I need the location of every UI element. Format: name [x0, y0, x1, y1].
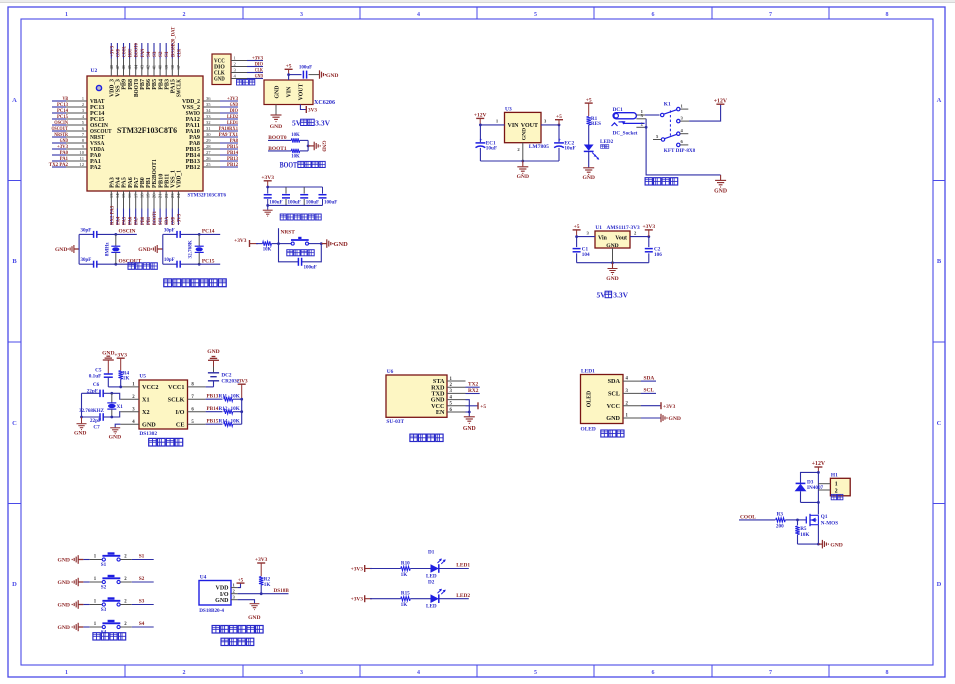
svg-text:104: 104 — [582, 252, 590, 258]
svg-text:RES: RES — [591, 121, 601, 127]
svg-text:SCL: SCL — [644, 388, 655, 394]
svg-text:27: 27 — [206, 150, 211, 155]
svg-text:VDD_1: VDD_1 — [177, 170, 183, 188]
svg-text:7: 7 — [769, 12, 772, 18]
svg-text:VOUT: VOUT — [298, 84, 304, 101]
svg-text:S1: S1 — [101, 562, 107, 568]
ic U6 SU-03T voice module — [386, 369, 466, 425]
resistor 10K on BOOT0 — [291, 133, 300, 143]
ic LED1 OLED display — [581, 369, 642, 433]
svg-text:12: 12 — [79, 162, 84, 167]
svg-text:S4: S4 — [139, 621, 145, 627]
resistor 10K on BOOT1 — [291, 149, 300, 160]
wire reset capacitor loop — [279, 244, 322, 262]
svg-text:VSS_3: VSS_3 — [116, 79, 122, 97]
power +3V3 at R10 — [351, 565, 372, 572]
power +5 at AMS1117 input — [573, 224, 581, 237]
svg-text:GND: GND — [669, 416, 681, 422]
junction pullup 1 — [240, 398, 243, 401]
resistor R5 10K — [795, 520, 809, 544]
svg-text:PB0: PB0 — [140, 177, 146, 188]
pin 36 VDD_2 / net +3V3 — [182, 96, 238, 105]
svg-text:Q1: Q1 — [821, 514, 828, 520]
resistor R11 10K pullup — [219, 394, 242, 402]
svg-text:PB14: PB14 — [207, 406, 219, 412]
wire cap to junction bottom — [180, 263, 220, 265]
svg-text:U4: U4 — [200, 575, 207, 581]
wire VIN to cap — [289, 74, 302, 76]
svg-text:LED: LED — [426, 573, 437, 579]
wire C5 to pin1 — [108, 386, 120, 388]
svg-text:TX2 PA2: TX2 PA2 — [49, 162, 68, 168]
junction at reset gnd — [320, 242, 323, 245]
wire EN to junction — [466, 411, 470, 413]
wire cap to junction bottom — [97, 263, 137, 265]
svg-text:C7: C7 — [93, 425, 100, 431]
power +12V at cooling — [812, 461, 826, 472]
junction DS18B20 data — [260, 592, 263, 595]
pin 31 PA10 / net PA10RX1 — [186, 126, 239, 135]
svg-text:PA2: PA2 — [90, 165, 101, 171]
junction top crystal — [198, 233, 201, 236]
svg-text:OLED: OLED — [587, 391, 593, 407]
svg-text:14: 14 — [115, 193, 120, 198]
wire cap to junction top — [97, 233, 137, 235]
ground at LED2 — [582, 168, 594, 181]
wire GND pin to EN pin — [466, 400, 470, 412]
svg-text:OSCIN: OSCIN — [119, 229, 136, 235]
ic U4 DS18B20-4 — [199, 575, 236, 614]
svg-text:OSCOUT: OSCOUT — [119, 258, 142, 264]
pin 25 PB12 / net PB12 — [186, 162, 239, 171]
junction VCC2 node — [119, 386, 122, 389]
svg-text:16: 16 — [127, 193, 132, 198]
resistor R12 10K pullup — [219, 406, 242, 414]
svg-text:GND: GND — [275, 86, 281, 99]
svg-text:PA5: PA5 — [122, 177, 128, 188]
svg-text:PB7: PB7 — [140, 79, 146, 90]
pin 30 PA9 / net PA9 TX1 — [189, 132, 238, 141]
svg-text:PB2BOOT1: PB2BOOT1 — [152, 159, 158, 188]
ground sideways at button S4 — [58, 623, 84, 631]
pin 37 SWCLK / net CLK — [176, 43, 183, 97]
net label S2 — [139, 576, 145, 582]
svg-text:C: C — [12, 420, 17, 427]
pin 32 PA11 / net LED1 — [186, 120, 239, 129]
pin 26 PB13 / net PB13 — [186, 156, 239, 165]
svg-text:LM7805: LM7805 — [529, 144, 549, 150]
svg-text:GND: GND — [102, 350, 114, 356]
svg-text:20: 20 — [152, 193, 157, 198]
svg-text:X1: X1 — [117, 404, 124, 410]
pin 3 PC14 / net PC14 — [52, 108, 105, 117]
ground at power circuit — [714, 175, 727, 195]
label xiazaikou (download port title) — [237, 80, 255, 86]
svg-text:R15: R15 — [401, 591, 410, 597]
wire diode branch bottom — [801, 501, 819, 503]
junction X2 bottom — [110, 416, 113, 419]
wire crystal rail — [162, 234, 164, 264]
power +5 at DS18B20 VDD — [231, 577, 245, 587]
svg-text:S3: S3 — [139, 599, 145, 605]
svg-text:VCC: VCC — [607, 403, 620, 410]
junction top crystal — [114, 233, 117, 236]
pin 42 PB6 / net S4 — [146, 43, 153, 90]
svg-text:LED: LED — [426, 604, 437, 610]
net label SDA — [641, 375, 656, 381]
svg-text:41: 41 — [152, 64, 157, 69]
label clock module title — [149, 438, 183, 446]
net label LED1 — [456, 563, 470, 569]
svg-text:GND: GND — [517, 174, 529, 180]
transistor Q1 N-MOS — [806, 514, 838, 527]
power +12V at LM7805 input — [474, 113, 487, 125]
ground sideways at reset — [327, 239, 348, 248]
junction AMS input — [575, 235, 578, 238]
ground sideways at BOOT — [314, 140, 325, 152]
svg-text:4: 4 — [417, 670, 420, 676]
ground sideways at button S1 — [58, 555, 84, 564]
wire +12V to VIN pin 1 — [480, 118, 504, 125]
wire R10 to led D1 — [410, 568, 430, 570]
svg-text:GND: GND — [326, 73, 338, 79]
svg-text:37: 37 — [176, 64, 181, 69]
capacitor 100uF filter 1 — [264, 187, 283, 205]
svg-text:OLED: OLED — [581, 427, 596, 433]
wire pullup rail — [241, 399, 243, 424]
svg-text:8: 8 — [886, 670, 889, 676]
pin 19 PB1 / net PB1 — [146, 177, 153, 225]
svg-text:RX2 PA3: RX2 PA3 — [109, 206, 115, 225]
svg-text:B: B — [937, 258, 942, 265]
svg-text:1K: 1K — [264, 582, 271, 588]
svg-text:LED1: LED1 — [581, 369, 595, 375]
svg-text:1: 1 — [65, 12, 68, 18]
svg-text:+12V: +12V — [714, 98, 728, 104]
svg-text:SDA: SDA — [164, 217, 170, 225]
power +3V3 at R2 — [255, 557, 268, 576]
svg-text:STM32F103C8T6: STM32F103C8T6 — [117, 126, 177, 135]
button S1 — [101, 554, 121, 568]
svg-text:30pF: 30pF — [80, 228, 91, 233]
wire to resistor R10 — [370, 568, 401, 570]
svg-text:+3V3: +3V3 — [663, 404, 676, 410]
pin 7 NRST / net NRSTR — [52, 132, 105, 141]
svg-text:+3V3: +3V3 — [109, 46, 115, 57]
net label NRST — [279, 228, 296, 243]
ground at filter caps — [263, 205, 273, 216]
power +3V3 at R15 — [351, 595, 372, 602]
wire to DS1302 X1 pin — [112, 393, 121, 399]
pin 29 PA8 / net PA8 — [189, 138, 238, 147]
ground at LM7805 — [517, 161, 529, 180]
junction reset node — [277, 242, 280, 245]
label independent buttons title — [93, 633, 126, 640]
pin 38 PA15 / net DS18B20_DAT — [170, 26, 177, 93]
pin 33 PA12 / net LED2 — [186, 114, 239, 123]
pin 20 PB2BOOT1 / net BOOT1 — [152, 159, 159, 225]
pin 1 VBAT / net VB — [52, 96, 105, 105]
svg-text:PB9: PB9 — [122, 79, 128, 90]
led D2 — [426, 580, 446, 610]
svg-text:SWCLK: SWCLK — [177, 79, 183, 97]
svg-text:S4: S4 — [146, 51, 152, 57]
svg-text:VDD: VDD — [216, 586, 230, 592]
svg-text:EN: EN — [436, 409, 445, 416]
junction drain node — [817, 501, 820, 504]
svg-text:200: 200 — [776, 523, 784, 529]
svg-text:GND: GND — [463, 426, 476, 432]
svg-text:X2: X2 — [142, 409, 150, 416]
svg-text:S2: S2 — [158, 51, 164, 57]
svg-text:SDA: SDA — [608, 378, 621, 385]
svg-text:SU-03T: SU-03T — [386, 419, 404, 425]
svg-text:I/O: I/O — [176, 409, 185, 416]
svg-text:11: 11 — [80, 156, 85, 161]
pin GND AMS1117 — [612, 248, 614, 263]
ground at DS1302 GND pin — [109, 424, 121, 440]
wire +12V node down — [817, 472, 819, 502]
svg-text:DS1302: DS1302 — [139, 431, 157, 437]
wire to DS1302 X2 pin — [112, 412, 121, 417]
svg-text:1: 1 — [835, 482, 838, 488]
svg-text:LED1: LED1 — [456, 563, 470, 569]
svg-text:H1: H1 — [831, 473, 838, 479]
wire cap to GND — [309, 74, 320, 76]
ground sideways at crystal — [138, 245, 163, 253]
svg-text:33: 33 — [206, 114, 211, 119]
svg-text:10uF: 10uF — [486, 146, 497, 152]
led D1 — [426, 549, 446, 579]
svg-text:+5: +5 — [238, 577, 244, 583]
pin 44 BOOT0 / net BOOT0 — [133, 43, 140, 97]
wire to button S1 pin1 — [83, 554, 102, 559]
svg-text:DS18B20_DAT: DS18B20_DAT — [170, 26, 176, 57]
svg-text:2: 2 — [183, 12, 186, 18]
svg-text:S1: S1 — [164, 51, 170, 57]
junction at BOOT join — [307, 145, 310, 148]
net label SCL — [641, 388, 656, 394]
net label S3 — [139, 599, 145, 605]
wire LED2 to ground — [588, 151, 590, 167]
svg-text:SDA: SDA — [644, 375, 655, 381]
capacitor 30pF top — [164, 228, 180, 238]
wire drain to mosfet — [817, 502, 819, 514]
svg-text:36: 36 — [206, 96, 211, 101]
svg-text:VSS_1: VSS_1 — [171, 170, 177, 188]
pin 2 GND of LM7805 — [517, 143, 522, 161]
label MCU minimum system title — [164, 279, 226, 287]
svg-text:PA4: PA4 — [116, 177, 122, 188]
battery DC2 CR2032 — [208, 373, 240, 387]
junction +12V cooling — [817, 471, 820, 474]
svg-text:GND: GND — [321, 140, 326, 152]
svg-text:U1: U1 — [595, 225, 602, 231]
svg-text:GND: GND — [109, 434, 121, 440]
pin 47 VSS_3 / net GND — [115, 43, 122, 97]
svg-text:PA6: PA6 — [128, 217, 134, 225]
svg-text:+3V3: +3V3 — [114, 352, 127, 358]
capacitor C2 106 — [645, 237, 662, 263]
svg-text:PB13: PB13 — [207, 394, 219, 400]
svg-text:46: 46 — [121, 64, 126, 69]
junction X1 top — [110, 392, 113, 395]
label 5V to 3.3V title — [597, 290, 629, 299]
svg-text:S1: S1 — [139, 554, 145, 560]
pin 34 SWIO / net DIO — [186, 108, 238, 117]
svg-text:STM32F103C8T6: STM32F103C8T6 — [188, 193, 227, 199]
crystal X1 32.768KHZ — [79, 393, 123, 417]
svg-text:DS18B: DS18B — [274, 588, 290, 594]
wire button S4 pin2 to net — [120, 622, 154, 627]
junction gnd rail — [521, 160, 524, 163]
wire to resistor R15 — [370, 598, 401, 600]
svg-text:100uF: 100uF — [269, 200, 282, 205]
svg-text:22pF: 22pF — [90, 418, 101, 424]
net label OSCOUT — [119, 258, 142, 264]
svg-text:PA7: PA7 — [134, 177, 140, 188]
svg-text:SCL: SCL — [608, 391, 620, 398]
svg-text:GND: GND — [58, 603, 70, 609]
svg-text:U2: U2 — [91, 68, 98, 74]
label voice module title — [410, 434, 443, 441]
svg-text:+12V: +12V — [474, 113, 487, 119]
svg-text:25: 25 — [206, 162, 211, 167]
power +3V3 at reset — [234, 238, 258, 247]
wire resistor to junction — [272, 243, 279, 245]
svg-text:PA3: PA3 — [110, 177, 116, 188]
pin 39 PB3 / net S1 — [164, 43, 171, 90]
svg-text:5: 5 — [534, 12, 537, 18]
ground above battery (inverted) — [207, 349, 219, 372]
net label COOL — [739, 514, 775, 520]
svg-text:24: 24 — [176, 193, 181, 198]
ground at AMS1117 — [606, 263, 618, 282]
wire BOOT1 resistor to join — [300, 150, 308, 152]
wire button to gnd junction — [309, 243, 322, 245]
svg-text:GND: GND — [138, 247, 150, 253]
pin stubs DC socket — [636, 113, 646, 127]
svg-text:DC_Socket: DC_Socket — [613, 130, 638, 136]
svg-text:19: 19 — [146, 193, 151, 198]
svg-text:+3V3: +3V3 — [236, 378, 248, 384]
svg-text:29: 29 — [206, 138, 211, 143]
mcu U2 STM32F103C8T6 — [87, 68, 226, 199]
wire button S1 pin2 to net — [120, 554, 154, 559]
wire button S2 pin2 to net — [120, 577, 154, 582]
junction rail gnd — [80, 416, 83, 419]
svg-text:10K: 10K — [291, 133, 300, 138]
junction pullup 2 — [240, 410, 243, 413]
svg-text:10K: 10K — [800, 532, 809, 538]
capacitor 100uF at XC6206 input — [299, 65, 312, 78]
svg-text:VDD_3: VDD_3 — [110, 79, 116, 97]
wire cap to junction top — [180, 233, 220, 235]
wire crystal rail — [78, 234, 80, 264]
svg-text:GND: GND — [606, 276, 618, 282]
label waterproof package title — [221, 638, 254, 645]
svg-text:I/O: I/O — [220, 592, 229, 598]
svg-text:BOOT0: BOOT0 — [134, 79, 140, 97]
net rail crystal X1 — [81, 393, 83, 417]
power +5 at XC6206 VIN — [285, 64, 293, 81]
wire join vertical — [307, 140, 309, 151]
power +3V3 at filter caps — [261, 175, 274, 187]
switch K1 KFT DIP-8X8 — [653, 101, 696, 154]
svg-text:GND: GND — [830, 542, 842, 548]
power +3V3 at XC6206 VOUT — [306, 106, 317, 114]
svg-text:PB8: PB8 — [128, 79, 134, 90]
net label RX2 — [466, 388, 480, 394]
svg-text:100uF: 100uF — [306, 200, 319, 205]
power +3V3 at OLED VCC — [641, 402, 676, 410]
svg-text:SCL: SCL — [158, 216, 164, 225]
button S3 — [101, 599, 121, 613]
svg-text:BOOT1: BOOT1 — [152, 211, 158, 225]
svg-text:32.768K: 32.768K — [188, 240, 194, 258]
svg-text:D: D — [12, 581, 17, 588]
svg-text:R10: R10 — [401, 560, 410, 566]
svg-text:GND: GND — [255, 73, 263, 79]
power +12V at switch — [689, 98, 728, 121]
svg-text:8MHz: 8MHz — [104, 242, 110, 257]
svg-text:PB11: PB11 — [164, 173, 170, 188]
net label PB15 — [206, 419, 223, 425]
wire bottom row — [79, 263, 94, 265]
wire VOUT pin 3 to +5 — [541, 118, 559, 125]
svg-text:42: 42 — [146, 64, 151, 69]
svg-text:D1: D1 — [428, 549, 435, 555]
pin 24 VDD_1 / net +3V3 — [176, 170, 183, 225]
svg-text:GND: GND — [58, 580, 70, 586]
svg-text:+: + — [480, 139, 483, 144]
svg-text:XC6206: XC6206 — [314, 100, 335, 106]
capacitor C7 22pF — [82, 413, 112, 431]
ground sideways at XC6206 cap — [320, 70, 339, 79]
net label PC15 — [202, 258, 215, 264]
svg-text:4: 4 — [417, 12, 420, 18]
pin 35 VSS_2 / net GND — [182, 102, 238, 111]
svg-text:+3V3: +3V3 — [261, 175, 274, 181]
wire junction to button — [279, 243, 292, 245]
svg-text:N-MOS: N-MOS — [821, 520, 838, 526]
svg-text:NRST: NRST — [281, 229, 296, 235]
net label PB14 — [206, 406, 223, 412]
svg-text:6: 6 — [652, 12, 655, 18]
pin 15 PA5 / net PA5 — [121, 177, 128, 225]
svg-text:VIN: VIN — [287, 86, 293, 97]
junction bottom crystal — [114, 263, 117, 266]
svg-text:8: 8 — [886, 12, 889, 18]
svg-text:GND: GND — [58, 625, 70, 631]
junction top rail — [266, 186, 269, 189]
wire Vout pin 2 to +3V3 — [630, 230, 649, 236]
svg-text:BOOT: BOOT — [280, 160, 298, 169]
svg-text:PB1: PB1 — [146, 217, 152, 225]
pin 8 VSSA / net GND — [52, 138, 105, 147]
svg-text:SCLK: SCLK — [168, 396, 185, 403]
wire to button S4 pin1 — [83, 622, 102, 627]
ground at DS18B20 GND — [231, 600, 261, 621]
pin 10 PA0 / net PA0 — [52, 150, 101, 159]
svg-text:7: 7 — [769, 670, 772, 676]
pin 21 PB10 / net SCL — [158, 174, 165, 225]
svg-text:CE: CE — [176, 421, 185, 428]
svg-text:30: 30 — [206, 132, 211, 137]
svg-text:GND: GND — [58, 558, 70, 564]
pin 11 PA1 / net PA1 — [52, 156, 101, 165]
svg-text:+3V3: +3V3 — [351, 566, 364, 572]
